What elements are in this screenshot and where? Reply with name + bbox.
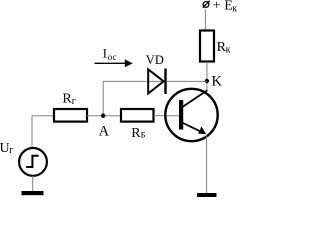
ground bar right xyxy=(197,193,217,197)
wire Rb to base xyxy=(154,115,180,117)
label Ug xyxy=(0,141,13,156)
svg-text:+ E: + E xyxy=(213,0,233,14)
svg-text:K: K xyxy=(212,74,223,90)
resistor Rg xyxy=(54,109,87,122)
transistor collector line xyxy=(182,90,207,107)
svg-text:г: г xyxy=(9,145,13,156)
label Rk xyxy=(217,40,231,56)
transistor base bar xyxy=(179,100,183,130)
step waveform inside source xyxy=(26,156,39,167)
source Ug circle xyxy=(19,148,47,176)
node A xyxy=(101,114,105,118)
svg-text:I: I xyxy=(103,46,107,60)
label +Ek xyxy=(213,0,237,15)
wire Rg to node A xyxy=(87,115,121,117)
resistor Rk xyxy=(200,31,214,62)
svg-text:г: г xyxy=(72,96,76,107)
wire Rk to node K and to collector xyxy=(206,62,208,92)
terminal +Ek symbol (circle with slash) xyxy=(203,1,210,8)
wire terminal to Rk xyxy=(204,10,206,31)
label Rg xyxy=(62,92,76,108)
wire source to ground xyxy=(32,176,34,191)
svg-text:U: U xyxy=(0,141,10,156)
svg-text:A: A xyxy=(99,123,110,139)
emitter wire down xyxy=(206,135,208,194)
svg-text:к: к xyxy=(232,4,237,15)
resistor Rb xyxy=(121,109,154,122)
svg-text:ос: ос xyxy=(108,52,117,62)
svg-text:Б: Б xyxy=(141,130,146,140)
svg-text:VD: VD xyxy=(146,53,164,67)
transistor VT circle xyxy=(165,89,217,141)
transistor emitter line with arrow xyxy=(182,123,206,135)
node K xyxy=(205,79,209,83)
ground bar left xyxy=(22,191,44,195)
label Rb xyxy=(131,126,145,141)
label Ioc xyxy=(103,46,117,61)
svg-text:к: к xyxy=(226,45,231,56)
wire source corner to Rg xyxy=(32,116,54,148)
diode VD xyxy=(148,69,165,95)
feedback current arrow Ioc xyxy=(95,59,133,67)
feedback wire A up and across to node K xyxy=(103,81,207,115)
